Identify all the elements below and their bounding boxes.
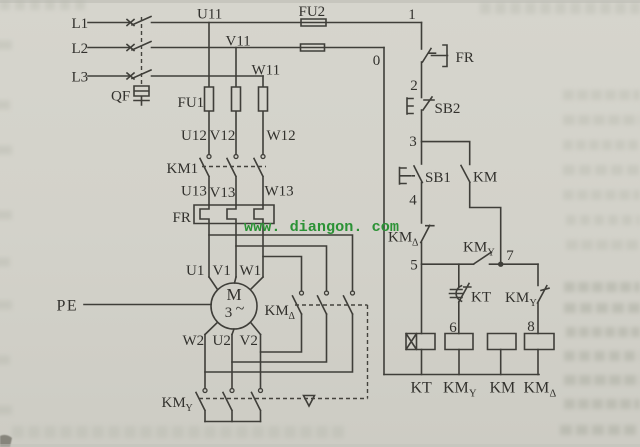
- svg-text:W13: W13: [265, 184, 294, 200]
- svg-text:Y: Y: [530, 298, 537, 309]
- svg-text:KM: KM: [463, 240, 487, 256]
- svg-text:KM1: KM1: [167, 161, 199, 177]
- svg-text:6: 6: [449, 320, 457, 336]
- svg-text:1: 1: [408, 7, 416, 23]
- svg-text:7: 7: [506, 248, 514, 264]
- svg-text:U12: U12: [181, 128, 207, 144]
- svg-text:V2: V2: [240, 333, 258, 349]
- svg-text:3: 3: [225, 305, 233, 321]
- svg-text:W1: W1: [240, 263, 262, 279]
- svg-text:Δ: Δ: [412, 238, 419, 249]
- svg-text:FR: FR: [456, 50, 474, 66]
- svg-text:Y: Y: [186, 403, 193, 414]
- svg-text:SB2: SB2: [435, 101, 461, 117]
- svg-text:KM: KM: [505, 290, 529, 306]
- svg-text:V11: V11: [226, 34, 251, 50]
- svg-text:Y: Y: [488, 248, 495, 259]
- svg-text:V13: V13: [210, 185, 236, 201]
- svg-text:QF: QF: [111, 89, 130, 105]
- svg-text:KM: KM: [490, 380, 516, 397]
- svg-text:L2: L2: [72, 41, 89, 57]
- svg-text:W11: W11: [252, 63, 281, 79]
- svg-text:V12: V12: [210, 128, 236, 144]
- svg-text:3: 3: [409, 134, 417, 150]
- svg-text:V1: V1: [213, 263, 231, 279]
- svg-text:Δ: Δ: [550, 389, 557, 400]
- svg-text:~: ~: [236, 301, 245, 318]
- svg-text:4: 4: [409, 193, 417, 209]
- svg-text:8: 8: [527, 319, 535, 335]
- svg-text:U11: U11: [197, 6, 222, 22]
- svg-text:KM: KM: [524, 380, 550, 397]
- svg-text:PE: PE: [57, 298, 79, 315]
- svg-text:0: 0: [373, 53, 381, 69]
- svg-text:L1: L1: [72, 16, 89, 32]
- svg-text:www. diangon. com: www. diangon. com: [244, 218, 399, 236]
- svg-text:KT: KT: [471, 290, 491, 306]
- svg-text:Y: Y: [469, 389, 477, 400]
- svg-text:5: 5: [410, 258, 418, 274]
- svg-text:2: 2: [410, 78, 418, 94]
- svg-text:FR: FR: [173, 210, 191, 226]
- svg-text:FU2: FU2: [299, 4, 326, 20]
- svg-text:FU1: FU1: [178, 95, 205, 111]
- svg-text:U2: U2: [213, 333, 231, 349]
- svg-text:KM: KM: [443, 380, 469, 397]
- svg-text:U1: U1: [186, 263, 204, 279]
- svg-text:SB1: SB1: [425, 170, 451, 186]
- svg-text:KM: KM: [473, 170, 497, 186]
- svg-text:KM: KM: [162, 395, 186, 411]
- svg-text:W12: W12: [267, 128, 296, 144]
- svg-text:Δ: Δ: [289, 311, 296, 322]
- svg-text:W2: W2: [183, 333, 205, 349]
- svg-text:KT: KT: [411, 380, 433, 397]
- svg-text:U13: U13: [181, 184, 207, 200]
- svg-text:KM: KM: [265, 303, 289, 319]
- svg-text:L3: L3: [72, 69, 89, 85]
